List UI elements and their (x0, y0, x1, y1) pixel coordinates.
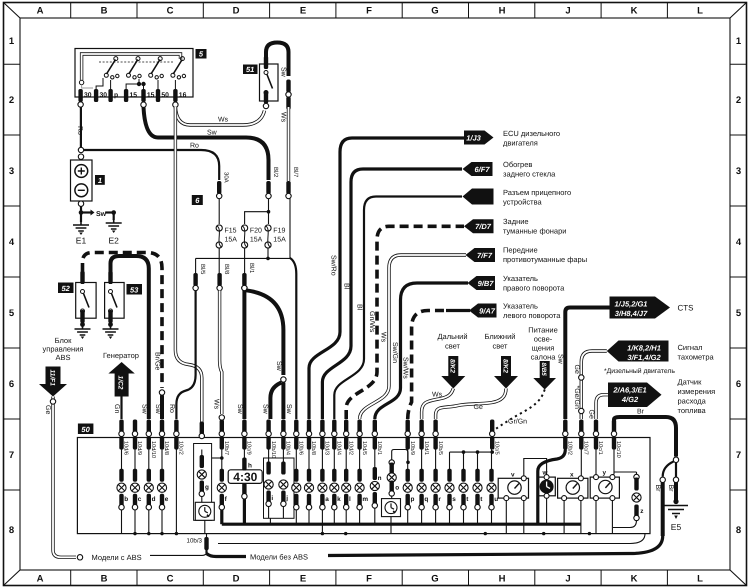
svg-text:Ge: Ge (573, 365, 580, 374)
gauge x (558, 472, 588, 501)
svg-text:h: h (248, 463, 252, 470)
S51 top pin (264, 56, 268, 69)
svg-text:Sw: Sw (285, 404, 292, 415)
svg-text:Sw: Sw (236, 404, 243, 415)
svg-text:l: l (349, 496, 351, 503)
svg-text:10b/6: 10b/6 (298, 441, 305, 455)
svg-text:Ближний: Ближний (485, 332, 516, 341)
svg-text:правого поворота: правого поворота (503, 284, 565, 293)
svg-text:6/F7: 6/F7 (474, 165, 490, 174)
wire Sw ignition pin15 to fuse feed (144, 107, 269, 180)
svg-text:8: 8 (736, 525, 741, 536)
svg-text:расхода: расхода (678, 397, 707, 406)
svg-text:Указатель: Указатель (503, 274, 538, 283)
svg-text:ECU дизельного: ECU дизельного (503, 129, 560, 138)
wire Ro straight down (175, 450, 177, 534)
wire Ge to tach arrow (581, 351, 607, 419)
svg-text:Обогрев: Обогрев (503, 160, 532, 169)
gauge v (498, 472, 528, 501)
svg-text:10d/4: 10d/4 (336, 441, 343, 455)
Ws entry connector (199, 422, 204, 439)
svg-text:Ge: Ge (588, 410, 595, 419)
sub-box around lamps i j (264, 458, 295, 518)
svg-text:j: j (285, 495, 288, 502)
svg-text:10c/10: 10c/10 (615, 441, 622, 458)
color chevron Br right (673, 477, 678, 482)
svg-text:Gr/Gn: Gr/Gn (508, 418, 527, 426)
text high beam (437, 332, 467, 351)
arrow 8/K2 high beam (441, 356, 465, 389)
svg-text:10d/10: 10d/10 (150, 441, 157, 458)
S52 blade (81, 290, 90, 314)
svg-text:c: c (138, 496, 142, 503)
left collector bus dots (133, 532, 136, 535)
ignition switch S5 box (75, 49, 193, 98)
svg-text:1: 1 (98, 176, 102, 185)
svg-text:1: 1 (736, 36, 742, 47)
wire Bl/5 to Ro into cluster (176, 291, 195, 420)
svg-text:b: b (124, 496, 128, 503)
left numbers (9, 36, 15, 536)
wire Ws gray from fuse Bl/8 down (220, 291, 222, 415)
svg-text:D: D (233, 6, 240, 17)
text right turn (503, 274, 565, 293)
node circle (673, 457, 678, 462)
svg-text:тахометра: тахометра (678, 353, 715, 362)
svg-text:Дальний: Дальний (437, 332, 467, 341)
fuse F20 15A (242, 225, 263, 248)
svg-text:3/F1,4/G2: 3/F1,4/G2 (627, 353, 661, 362)
svg-text:p: p (411, 496, 415, 503)
svg-text:Ws: Ws (432, 392, 443, 399)
svg-text:Sw: Sw (262, 404, 269, 415)
ignition terminal pins 30 30 p 15 15 50 16 (78, 89, 186, 102)
svg-text:30: 30 (100, 92, 108, 99)
svg-text:10c/7: 10c/7 (583, 441, 590, 455)
svg-text:свет: свет (445, 342, 461, 351)
fuse feed pins 30A / Bl/2 / Bl/7 (217, 167, 300, 199)
svg-text:C: C (167, 574, 174, 585)
svg-text:*Ge/Gn: *Ge/Gn (573, 386, 581, 409)
svg-text:Модели с ABS: Модели с ABS (92, 553, 142, 562)
svg-text:7: 7 (736, 450, 741, 461)
svg-text:15: 15 (147, 92, 155, 99)
fuse output pins Bl/5 Bl/8 Bl/1 (193, 263, 255, 291)
wire 30A pin to F15 (218, 199, 220, 225)
svg-text:1/K8,2/H1: 1/K8,2/H1 (627, 343, 661, 352)
lamp a chain (318, 450, 329, 534)
svg-text:10d/3: 10d/3 (324, 441, 331, 455)
gauge w clock (538, 470, 556, 499)
svg-text:w: w (542, 470, 548, 477)
S52 ground (75, 322, 91, 339)
S51 blade (264, 71, 273, 95)
svg-text:x: x (570, 472, 574, 479)
svg-text:B: B (101, 574, 108, 585)
text Perednie (503, 246, 587, 265)
svg-text:Bl/5: Bl/5 (199, 264, 206, 275)
wire below F20 (244, 248, 246, 274)
svg-text:g: g (205, 484, 209, 491)
wire Ws long gray from ignition pin 16 (175, 107, 201, 427)
svg-text:Ws: Ws (379, 332, 386, 343)
svg-text:10d/5: 10d/5 (361, 441, 368, 455)
wire below F15 (218, 248, 220, 274)
arrow CTS (610, 297, 671, 319)
svg-text:G: G (431, 574, 438, 585)
text tach (678, 343, 715, 362)
wire Sw/Ro to ECU arrow (309, 138, 464, 419)
wire Sw from fuse Bl/1: branch down (242, 285, 247, 290)
gauge y (590, 470, 619, 501)
svg-text:10b/7: 10b/7 (223, 441, 230, 455)
svg-text:Bl/2: Bl/2 (272, 167, 279, 178)
lamp indicator chain (304, 450, 313, 525)
svg-text:осве-: осве- (534, 335, 553, 344)
wire Gn below generator arrow (120, 397, 122, 420)
svg-text:K: K (631, 574, 638, 585)
svg-text:2: 2 (9, 95, 14, 106)
text Obogrev (503, 160, 556, 179)
arrow 9/B7 (468, 276, 496, 290)
svg-text:10b/2: 10b/2 (567, 441, 574, 455)
svg-text:левого поворота: левого поворота (503, 311, 561, 320)
arrow 1/J3 (464, 131, 494, 145)
svg-text:p: p (114, 92, 118, 99)
svg-text:Bl: Bl (343, 283, 351, 290)
svg-text:10d/9: 10d/9 (136, 441, 143, 455)
text ECU (503, 129, 560, 148)
switch S53 box (105, 283, 125, 319)
svg-text:E: E (300, 6, 306, 17)
lamp n chain (370, 450, 381, 525)
svg-text:15A: 15A (273, 237, 286, 244)
node: junction circle (78, 147, 83, 152)
svg-text:1/C2: 1/C2 (117, 376, 124, 390)
text low beam (485, 332, 516, 351)
svg-text:H: H (499, 574, 506, 585)
svg-text:30A: 30A (223, 172, 230, 183)
svg-text:Sw: Sw (280, 67, 287, 78)
arrow 7/D7 (464, 219, 494, 233)
color chevron Br left (660, 477, 665, 482)
wire v-w top link (524, 459, 547, 476)
svg-text:L: L (697, 574, 703, 585)
bus feeding lamps s t t (450, 451, 493, 453)
svg-text:10c/1: 10c/1 (597, 441, 604, 455)
lamp g chain (197, 450, 209, 534)
color chevron (579, 375, 584, 380)
wire Ro from ignition pin 30 down (80, 107, 82, 147)
svg-text:щения: щения (532, 344, 555, 353)
lamp indicator chain (292, 450, 301, 525)
svg-text:Генератор: Генератор (103, 351, 139, 360)
svg-text:J: J (565, 6, 570, 17)
svg-text:F19: F19 (273, 228, 285, 235)
svg-text:L: L (697, 6, 703, 17)
ground E1 (73, 221, 89, 246)
arrow 8/K2 low beam (494, 356, 518, 389)
fuse F15 15A (216, 225, 237, 248)
S52 pins (80, 271, 84, 284)
top letters (37, 6, 704, 17)
svg-text:16: 16 (179, 92, 187, 99)
arrow 1/C2 up (108, 362, 134, 397)
svg-text:Sw/Gn: Sw/Gn (391, 342, 399, 363)
label 53 (127, 284, 143, 295)
svg-text:Sw: Sw (96, 211, 107, 218)
svg-text:Модели без ABS: Модели без ABS (250, 553, 308, 562)
label 51 (243, 65, 258, 75)
svg-text:8/B5: 8/B5 (540, 363, 547, 377)
svg-text:10d/1: 10d/1 (423, 441, 430, 455)
wire Sw branch to 10b/10 (270, 383, 281, 420)
node junction (267, 210, 271, 214)
svg-text:10d/6: 10d/6 (123, 441, 130, 455)
svg-text:Ge: Ge (44, 405, 51, 414)
svg-text:ABS: ABS (55, 353, 70, 362)
lamp c chain (130, 450, 141, 534)
color-change connector on loop (286, 80, 290, 93)
text fuel sensor (678, 378, 716, 416)
svg-text:топлива: топлива (678, 406, 707, 415)
svg-text:10b/9: 10b/9 (409, 441, 416, 455)
svg-text:Питание: Питание (528, 326, 558, 335)
lamp d chain (144, 450, 155, 534)
text block ABS (43, 336, 84, 362)
lamp o branch (387, 450, 410, 534)
svg-text:CTS: CTS (678, 304, 694, 313)
svg-text:y: y (603, 470, 607, 477)
ignition internal pin links (96, 78, 175, 91)
arrow fuel sensor (608, 383, 662, 408)
wire Sw branch to 10b/4 (281, 383, 285, 420)
wire right Br stub (675, 463, 677, 477)
svg-text:E2: E2 (108, 236, 119, 246)
wire Sw below chevron (160, 395, 164, 419)
arrow 6/F7 (463, 162, 493, 176)
lamp l chain (342, 450, 351, 525)
fuse F19 15A (265, 225, 286, 248)
wire Sw/Gn to right-turn arrow (375, 283, 468, 419)
svg-text:4/G2: 4/G2 (621, 395, 639, 404)
svg-text:1/J5,2/G1: 1/J5,2/G1 (615, 299, 648, 308)
svg-text:Ro: Ro (168, 404, 175, 413)
wire Br left stub down (661, 483, 665, 537)
svg-text:m: m (362, 496, 368, 503)
svg-text:15A: 15A (225, 237, 238, 244)
svg-text:G: G (431, 6, 438, 17)
wire Modeli s ABS thin line (150, 554, 207, 556)
svg-text:9/A7: 9/A7 (479, 306, 496, 315)
svg-text:3/H8,4/J7: 3/H8,4/J7 (615, 309, 648, 318)
svg-text:Ws: Ws (280, 112, 287, 123)
svg-text:H: H (499, 6, 506, 17)
wire Bl to trailer arrow (334, 197, 462, 420)
svg-text:6: 6 (736, 379, 741, 390)
svg-text:Ge: Ge (474, 404, 483, 411)
wire Sw/Ws dashed to left-turn arrow (408, 311, 446, 420)
svg-text:15: 15 (130, 92, 138, 99)
lamp u chain (487, 450, 498, 525)
svg-text:v: v (511, 472, 515, 479)
svg-text:4:30: 4:30 (233, 470, 257, 484)
lamp p chain (403, 450, 414, 525)
svg-text:a: a (325, 496, 329, 503)
svg-text:A: A (37, 6, 44, 17)
right numbers (736, 36, 742, 536)
svg-text:Ro: Ro (190, 143, 199, 150)
svg-text:B: B (101, 6, 108, 17)
svg-text:2/A6,3/E1: 2/A6,3/E1 (612, 386, 646, 395)
text interior light (528, 326, 558, 362)
wire arc to left Br stub (663, 462, 674, 477)
wire Ws: S51 loop down to fuse row pin Bl/7 (287, 107, 290, 181)
svg-text:D: D (233, 574, 240, 585)
battery B1 (71, 154, 93, 206)
svg-text:15A: 15A (250, 237, 263, 244)
svg-text:Bl: Bl (356, 304, 364, 311)
svg-text:10c/9: 10c/9 (246, 441, 253, 455)
wire dashed Br/Ge from S52 to box 50 (83, 253, 163, 389)
svg-text:Sw: Sw (275, 361, 282, 372)
svg-text:6: 6 (9, 379, 14, 390)
svg-text:50: 50 (161, 92, 169, 99)
svg-text:устройства: устройства (503, 198, 542, 207)
wire Ro horizontal to fuse 30A (84, 150, 220, 180)
svg-text:1/J3: 1/J3 (466, 133, 481, 142)
svg-text:Sw: Sw (154, 404, 161, 415)
wire Bl to rear defog arrow (322, 169, 462, 419)
svg-text:10b/10: 10b/10 (270, 441, 277, 458)
svg-text:o: o (395, 485, 399, 492)
wire Sw from Bl/1 circle curving right (246, 290, 283, 375)
connector 10b/3 (187, 534, 209, 554)
ground E5 (664, 499, 688, 532)
svg-text:Указатель: Указатель (503, 302, 538, 311)
wire Ge from low beam (436, 389, 506, 420)
wire Ge gray from ABS arrow down to Modeli s ABS line (53, 397, 76, 558)
svg-text:Датчик: Датчик (678, 378, 703, 387)
right collector bus dots (344, 532, 347, 535)
lamp j chain (279, 450, 288, 519)
svg-text:30: 30 (84, 92, 92, 99)
S53 pins (108, 271, 112, 284)
svg-text:Разъем прицепного: Разъем прицепного (503, 188, 571, 197)
label 5 (196, 49, 207, 59)
lamp t chain (459, 452, 469, 524)
wire battery minus to ground (80, 206, 82, 222)
label 50 (78, 424, 94, 435)
svg-text:8/K2: 8/K2 (501, 359, 508, 373)
svg-text:противотуманные фары: противотуманные фары (503, 255, 587, 264)
gauge below g (195, 502, 214, 520)
svg-text:10b/4: 10b/4 (285, 441, 292, 455)
text left turn (503, 302, 561, 321)
lamp f chain (217, 450, 227, 525)
svg-text:Br/Ge: Br/Ge (154, 352, 162, 370)
svg-text:F: F (366, 6, 372, 17)
color chevron (579, 408, 584, 413)
wire Gn/Ws dashed to rear fog arrow (346, 226, 464, 419)
node: junction circle (281, 377, 286, 382)
svg-text:4: 4 (736, 237, 742, 248)
color chevron (219, 415, 224, 420)
svg-text:K: K (631, 6, 638, 17)
svg-text:E: E (300, 574, 306, 585)
digital clock h (228, 450, 262, 525)
svg-text:53: 53 (130, 285, 139, 294)
wire Ws from high beam (422, 389, 454, 420)
svg-text:Sw/Ro: Sw/Ro (329, 255, 337, 276)
svg-text:2: 2 (736, 95, 741, 106)
arrow 11/F1 down (39, 367, 67, 397)
S51 loop wire Sw (266, 43, 289, 77)
ignition internal gray bus wire (79, 54, 180, 88)
svg-text:J: J (565, 574, 570, 585)
svg-text:Sw: Sw (557, 354, 564, 365)
svg-text:Bl/1: Bl/1 (248, 263, 255, 274)
svg-text:52: 52 (62, 284, 71, 293)
arrow 9/A7 (469, 304, 497, 318)
switch S52 box (76, 283, 96, 319)
svg-text:8/K2: 8/K2 (449, 359, 456, 373)
svg-text:10b/8: 10b/8 (310, 441, 317, 455)
wire to E5 (674, 483, 678, 501)
svg-text:50: 50 (81, 425, 90, 434)
label 6 (192, 195, 203, 205)
gauge bottom drops (506, 498, 612, 533)
svg-text:5: 5 (9, 308, 15, 319)
svg-text:z: z (640, 508, 643, 515)
svg-text:Bl/7: Bl/7 (292, 167, 299, 178)
wire Sw thick to CTS (565, 308, 610, 420)
svg-text:Br: Br (667, 485, 674, 493)
svg-text:51: 51 (246, 65, 254, 74)
lamp r chain (431, 450, 441, 525)
svg-text:*Дизельный двигатель: *Дизельный двигатель (604, 367, 675, 375)
svg-text:A: A (37, 574, 44, 585)
svg-text:s: s (452, 496, 456, 503)
cluster box 50 (77, 438, 650, 534)
svg-text:7: 7 (9, 450, 14, 461)
lamp q chain (417, 450, 428, 525)
svg-text:10c/5: 10c/5 (493, 441, 500, 455)
svg-text:Bl/8: Bl/8 (223, 264, 230, 275)
break chevron (77, 555, 82, 560)
lamp e chain (157, 450, 168, 534)
svg-text:7/D7: 7/D7 (475, 222, 492, 231)
svg-text:свет: свет (492, 342, 508, 351)
svg-text:E5: E5 (671, 522, 682, 532)
node junction (266, 257, 270, 261)
lamp b chain (117, 450, 128, 534)
svg-text:Sw: Sw (140, 404, 147, 415)
label 52 (58, 283, 74, 294)
switch S51 box (260, 64, 279, 101)
color change chevron (159, 390, 164, 395)
svg-text:Ws: Ws (218, 117, 229, 124)
svg-text:d: d (152, 496, 156, 503)
wire from fuse collector to 10b/6 (290, 258, 296, 419)
svg-text:F: F (366, 574, 372, 585)
svg-text:5: 5 (736, 308, 742, 319)
svg-text:7/F7: 7/F7 (477, 251, 493, 260)
wire Ws gray to front fog arrow (360, 255, 466, 419)
outer loop wire below box (218, 534, 645, 544)
svg-text:F20: F20 (250, 228, 262, 235)
connector circles below ignition pins (78, 102, 83, 107)
